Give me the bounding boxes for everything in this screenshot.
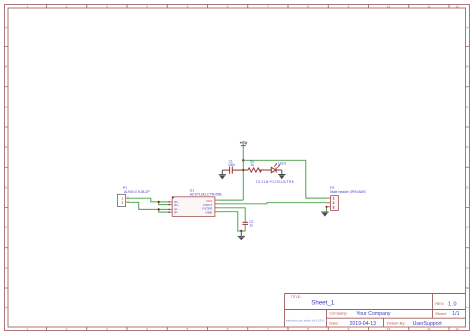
svg-text:Company:: Company: <box>329 311 347 316</box>
wire net IP- branch to U1 pin4 <box>159 209 169 212</box>
junction net IP- <box>158 208 160 210</box>
wire +5V vertical to U1 VCC <box>242 146 244 200</box>
svg-text:Date:: Date: <box>329 321 339 326</box>
junction +5V / net N1 <box>242 159 244 161</box>
junction P2 pin3 corner dot <box>326 206 328 208</box>
wire P2 pin3 to ground <box>326 207 329 212</box>
svg-text:Male header 3PIN AMS: Male header 3PIN AMS <box>330 190 366 194</box>
svg-text:F: F <box>5 226 7 230</box>
svg-text:Drawn By:: Drawn By: <box>387 321 405 326</box>
U1 right pin stubs <box>215 200 218 212</box>
svg-text:E: E <box>466 186 468 190</box>
svg-text:F: F <box>467 226 469 230</box>
svg-text:12: 12 <box>456 4 460 8</box>
svg-text:P1: P1 <box>123 186 127 190</box>
svg-text:REV:: REV: <box>435 301 444 306</box>
svg-text:H: H <box>5 306 7 310</box>
svg-text:GND: GND <box>206 211 214 215</box>
wire net IP- : P1 pin2 to U1 pin3 <box>127 202 169 209</box>
svg-text:FILTER: FILTER <box>202 207 213 211</box>
svg-text:1n: 1n <box>249 224 253 228</box>
ground (U1 GND / C2) <box>238 231 245 240</box>
svg-text:UL94V-0 5.08-2P: UL94V-0 5.08-2P <box>124 190 151 194</box>
connector P2 <box>327 196 338 211</box>
svg-text:+5V: +5V <box>240 141 248 146</box>
svg-text:IP+: IP+ <box>174 203 179 207</box>
svg-text:1k: 1k <box>251 163 255 167</box>
svg-text:A: A <box>5 25 7 29</box>
wire net N1 : +5V node to P2 pin1 <box>243 160 327 198</box>
IC U1 ACS712 current sensor <box>168 197 217 217</box>
svg-text:B: B <box>466 65 468 69</box>
title block frame <box>285 294 466 328</box>
svg-text:H: H <box>466 306 468 310</box>
svg-text:TITLE:: TITLE: <box>291 295 301 299</box>
wire net GND : U1 GND pin to ground node <box>218 212 242 231</box>
resistor R1 <box>243 168 271 172</box>
svg-text:ACS712ELCTR-05B: ACS712ELCTR-05B <box>190 192 223 196</box>
capacitor C1 <box>222 167 243 174</box>
wire net FILTER : U1 FILTER to C2 <box>218 208 246 222</box>
svg-text:Sheet:: Sheet: <box>435 311 447 316</box>
capacitor C2 <box>242 222 248 224</box>
svg-text:Your Company: Your Company <box>356 311 391 317</box>
svg-text:E: E <box>5 186 7 190</box>
svg-text:easyeda.com editor v6.4.25.6: easyeda.com editor v6.4.25.6 <box>286 318 324 322</box>
svg-text:10: 10 <box>387 4 391 8</box>
svg-text:11: 11 <box>427 327 430 331</box>
svg-text:G: G <box>466 266 469 270</box>
wire net IP+ : P1 pin1 to U1 pin1 <box>127 198 169 202</box>
svg-text:100n: 100n <box>228 163 235 167</box>
svg-text:A: A <box>466 25 468 29</box>
svg-text:11: 11 <box>427 4 430 8</box>
svg-text:12: 12 <box>456 327 460 331</box>
svg-text:2019-04-13: 2019-04-13 <box>350 321 377 327</box>
U1 left pin stubs <box>169 202 172 212</box>
ground (P2 pin3) <box>321 212 328 217</box>
svg-text:D: D <box>466 145 469 149</box>
title block text <box>286 295 460 327</box>
junction ground node <box>240 230 242 232</box>
svg-text:1.0: 1.0 <box>448 302 457 308</box>
svg-text:23-21B/YC/S119/TR8: 23-21B/YC/S119/TR8 <box>256 180 294 184</box>
junction +5V / R1 C1 node <box>242 169 244 171</box>
svg-text:LED1: LED1 <box>278 161 286 165</box>
wire C2 bottom to ground node <box>241 225 245 231</box>
svg-text:10: 10 <box>387 327 391 331</box>
wire net VIOUT : U1 VIOUT to P2 pin2 <box>218 203 328 204</box>
ground (LED1) <box>278 170 285 179</box>
svg-text:UserSupport: UserSupport <box>413 321 443 327</box>
svg-text:C: C <box>466 105 469 109</box>
connector P1 <box>117 194 129 206</box>
wire net IP+ branch to U1 pin2 <box>159 202 169 205</box>
junction net IP+ <box>158 201 160 203</box>
svg-text:3: 3 <box>333 205 335 209</box>
svg-text:2: 2 <box>333 201 335 205</box>
wire U1 VCC pin to +5V line <box>218 199 244 201</box>
svg-text:1: 1 <box>333 197 335 201</box>
svg-text:IP-: IP- <box>174 210 178 214</box>
svg-text:1/1: 1/1 <box>452 311 459 317</box>
svg-text:Sheet_1: Sheet_1 <box>311 299 335 306</box>
power +5V symbol <box>240 141 248 146</box>
ground (C1) <box>219 170 226 179</box>
LED LED1 <box>271 163 282 172</box>
svg-text:B: B <box>5 65 7 69</box>
